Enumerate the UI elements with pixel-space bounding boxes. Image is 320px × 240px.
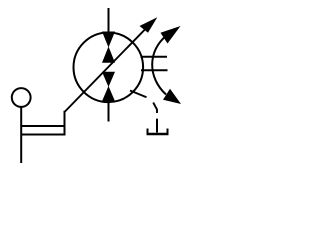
- top port line: [108, 8, 110, 33]
- lever linkage right edge: [64, 111, 66, 136]
- case drain dash 1: [130, 91, 147, 98]
- tank left wall: [147, 129, 149, 135]
- lever linkage bottom line: [21, 134, 64, 136]
- flow triangle top, apex down: [102, 32, 115, 48]
- variable displacement arrowhead: [140, 17, 158, 33]
- drive shaft lower line: [141, 69, 168, 71]
- case drain dash 3 / drain pipe: [156, 119, 158, 133]
- rotation arrowhead top: [161, 26, 181, 44]
- variable displacement arrow shaft (diagonal): [65, 27, 148, 112]
- flow triangle lower-middle, apex down: [102, 72, 115, 87]
- flow triangle upper-middle, apex up: [102, 47, 115, 63]
- manual lever knob: [12, 88, 31, 107]
- pump/motor unit circle: [74, 33, 144, 103]
- bidirectional rotation arc: [152, 36, 166, 95]
- tank right wall: [167, 129, 169, 135]
- case drain dash 2: [153, 103, 157, 114]
- lever linkage top line: [21, 125, 64, 127]
- drive shaft upper line: [141, 56, 168, 58]
- manual lever stem: [20, 107, 22, 163]
- rotation arrowhead bottom: [163, 89, 181, 104]
- flow triangle bottom, apex up: [102, 86, 115, 101]
- tank bottom line: [147, 133, 169, 136]
- bottom port line: [108, 101, 110, 122]
